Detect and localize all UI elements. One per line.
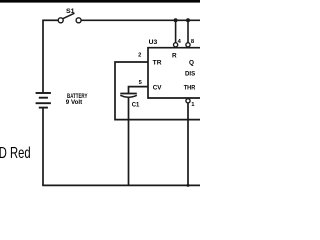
wire: bottom ground rail <box>42 184 200 186</box>
svg-text:8: 8 <box>191 39 195 45</box>
battery plate long (+ top) <box>36 92 51 94</box>
svg-text:2: 2 <box>138 53 141 59</box>
junction dot at top rail / pin 4 wire <box>174 18 178 22</box>
battery plate long <box>36 102 51 104</box>
wire: pin 2 trigger net (left, down, and right off edge) <box>115 62 200 120</box>
svg-text:9 Volt: 9 Volt <box>66 100 82 106</box>
svg-text:TR: TR <box>153 59 162 66</box>
wire: capacitor C1 bottom to ground rail <box>128 98 130 186</box>
capacitor C1 curved bottom plate <box>120 95 137 97</box>
svg-text:DIS: DIS <box>185 71 196 78</box>
junction dot at pin 1 wire / bottom rail <box>187 184 190 187</box>
svg-text:1: 1 <box>191 102 195 108</box>
switch S1 left contact circle <box>58 18 63 23</box>
svg-text:D Red: D Red <box>0 145 31 162</box>
capacitor C1 top plate <box>120 93 137 95</box>
svg-text:CV: CV <box>153 84 163 91</box>
switch S1 right contact circle <box>76 18 81 23</box>
junction dot at top rail / pin 8 wire <box>186 18 190 22</box>
wire: left vertical (battery - down to bottom rail) <box>42 108 44 186</box>
capacitor C1 <box>120 94 140 109</box>
switch S1 <box>58 9 81 23</box>
svg-text:S1: S1 <box>66 9 75 15</box>
wire: pin 1 ground to bottom rail <box>187 103 189 185</box>
op IC U3 555 timer box <box>148 48 200 98</box>
svg-text:4: 4 <box>178 39 182 45</box>
wire: pin 8 vcc to top rail <box>187 20 189 42</box>
svg-text:U3: U3 <box>149 39 158 46</box>
svg-text:THR: THR <box>184 84 196 91</box>
pin 4 circle <box>174 43 178 47</box>
svg-text:R: R <box>172 52 177 59</box>
battery plate short <box>39 97 48 99</box>
svg-text:5: 5 <box>139 80 143 86</box>
top border bar <box>0 0 200 3</box>
pin 1 circle <box>186 99 190 103</box>
battery B1 <box>36 93 88 108</box>
wire: top rail right segment (switch S1 to VCC, off right edge) <box>81 19 200 21</box>
pin 8 circle <box>186 43 190 47</box>
switch S1 lever <box>63 13 75 19</box>
wire: left vertical (top rail down to battery +) <box>42 20 44 93</box>
battery plate short (- bottom) <box>39 107 48 109</box>
wire: pin 5 CV to capacitor C1 <box>129 87 149 93</box>
wire: top rail left segment (battery + to switch S1) <box>43 19 58 21</box>
svg-text:Q: Q <box>189 59 194 66</box>
svg-text:C1: C1 <box>132 101 140 108</box>
wire: pin 4 reset to top rail <box>175 20 177 42</box>
